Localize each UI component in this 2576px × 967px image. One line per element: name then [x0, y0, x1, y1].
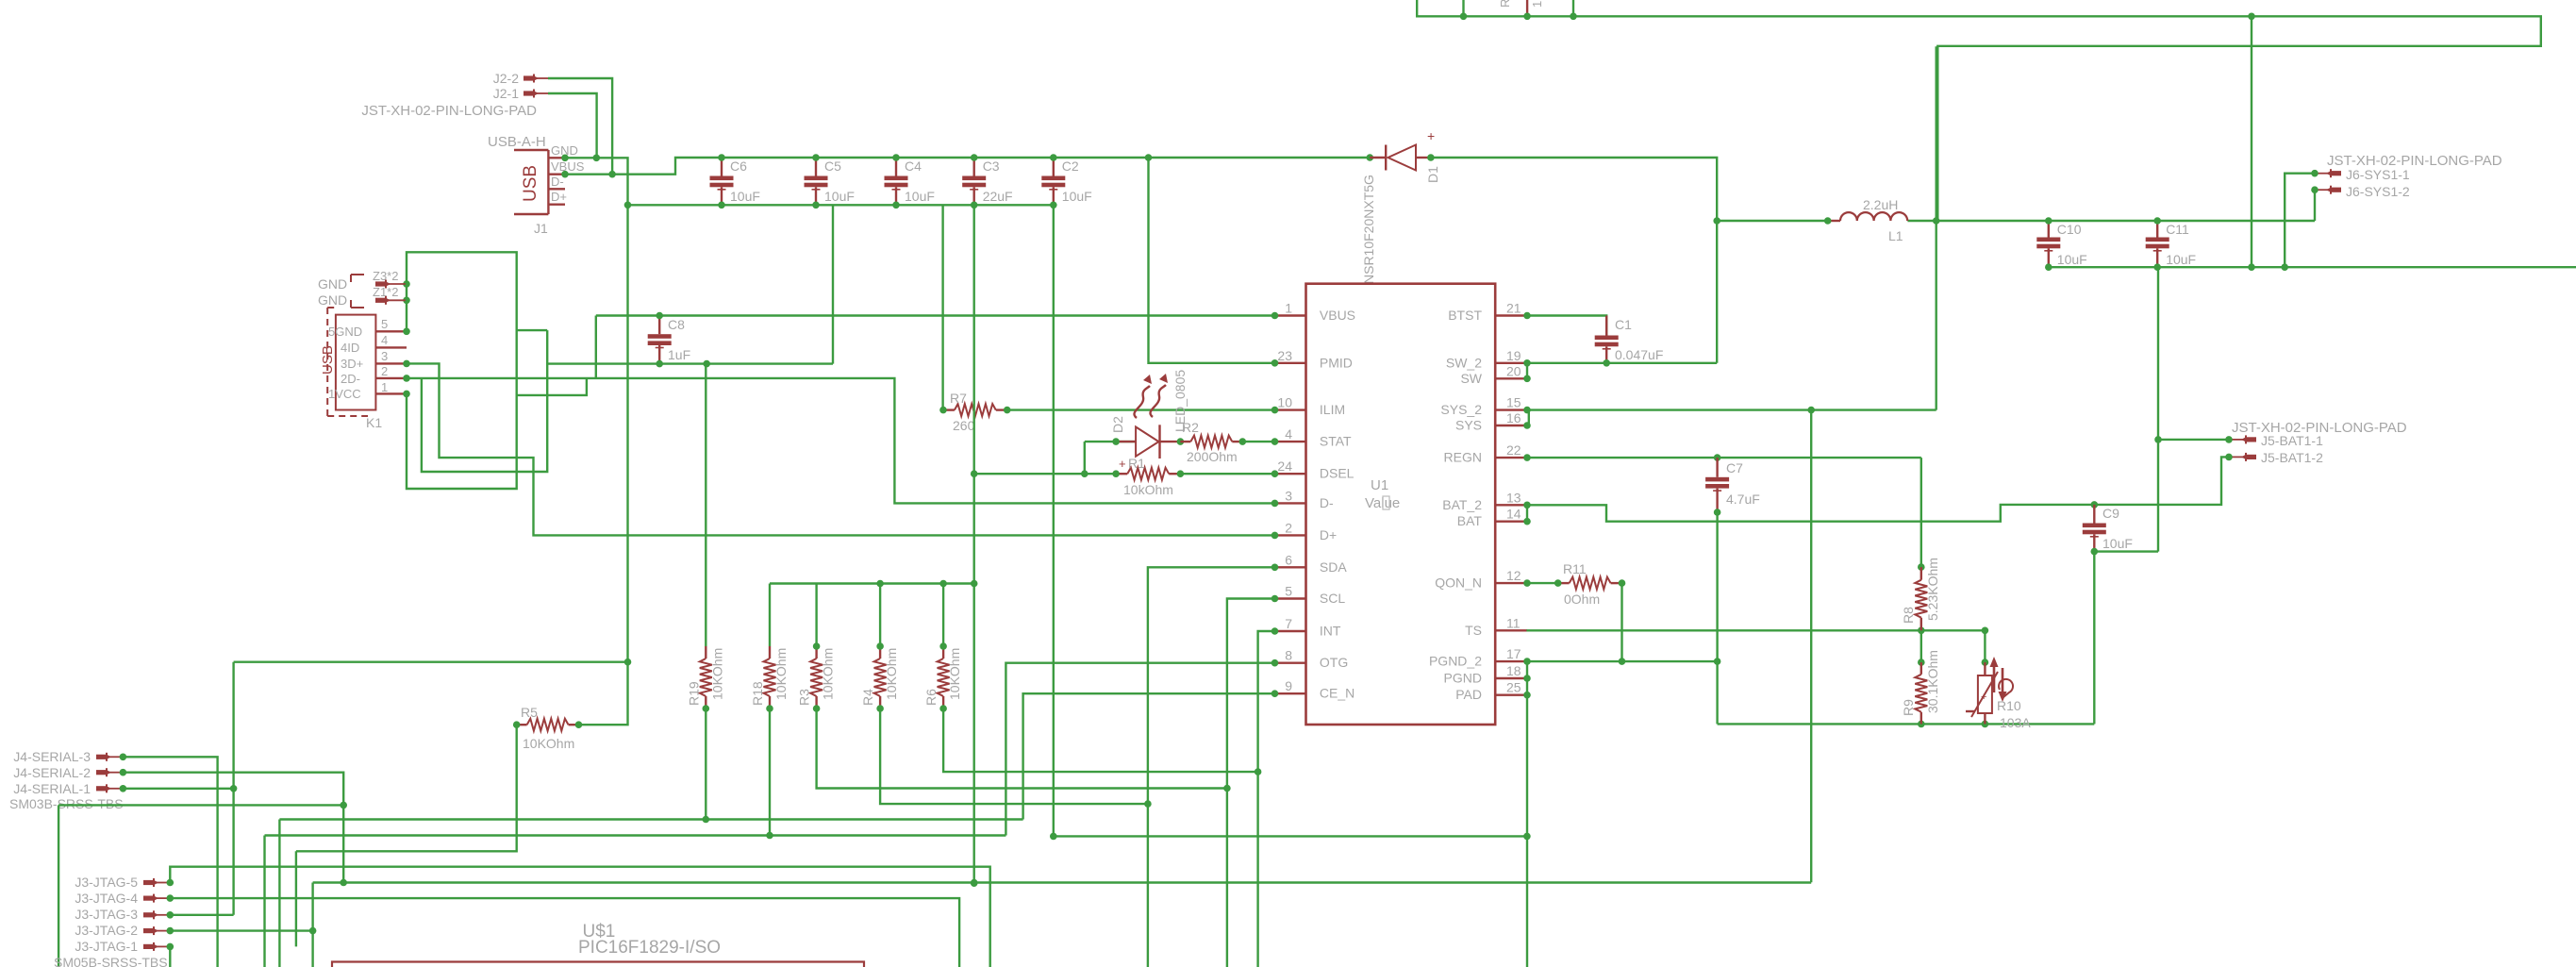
svg-text:OTG: OTG: [1320, 655, 1348, 670]
svg-text:10uF: 10uF: [824, 189, 855, 204]
svg-text:200Ohm: 200Ohm: [1187, 449, 1238, 464]
resistor R1 10kOhm: [1112, 456, 1184, 497]
wire JTAG-2 to SYS bus: [170, 929, 312, 931]
resistor R19 10KOhm: [686, 646, 724, 712]
svg-text:J4-SERIAL-3: J4-SERIAL-3: [13, 749, 91, 764]
svg-text:25: 25: [1506, 680, 1521, 695]
wire R3 top: [813, 584, 821, 650]
wire JTAG-3 to GND staircase: [170, 914, 233, 916]
svg-text:K1: K1: [366, 415, 382, 430]
svg-text:2D-: 2D-: [341, 372, 360, 386]
svg-text:R: R: [1498, 0, 1512, 8]
svg-text:PMID: PMID: [1320, 355, 1353, 370]
wire R6 top: [939, 584, 947, 650]
svg-text:5.23KOhm: 5.23KOhm: [1925, 558, 1940, 621]
junction JTAG-2: [309, 927, 317, 935]
labels cut-off R?: [1498, 0, 1544, 8]
svg-text:VBUS: VBUS: [1320, 308, 1355, 323]
wire JTAG-5 to PIC: [170, 867, 989, 967]
wire vertical from top frame to GND rail: [2251, 16, 2252, 267]
wire long GND vertical from C2 bottom: [1053, 205, 1055, 836]
svg-text:R19: R19: [686, 681, 701, 706]
junctions PGND line: [1619, 658, 1721, 665]
junctions J6 pins: [2311, 170, 2318, 193]
capacitor C10 10uF: [2036, 217, 2086, 271]
wire bus drop x296 to PIC: [278, 820, 280, 967]
labels J4-SERIAL: [9, 749, 124, 811]
svg-text:D1: D1: [1425, 166, 1440, 183]
svg-text:3D+: 3D+: [341, 357, 363, 371]
thermistor R10 103A: [1966, 657, 2031, 730]
U1 left pins with numbers: [1271, 301, 1355, 701]
svg-text:10uF: 10uF: [2166, 252, 2196, 267]
wire CE_N/SDA-pullup bus line: [279, 818, 1022, 820]
svg-text:PGND: PGND: [1444, 671, 1482, 686]
connector J1 USB-A-H symbol: [514, 150, 565, 214]
svg-text:4.7uF: 4.7uF: [1726, 492, 1760, 507]
wire SYS/pullup bus line: [313, 881, 1812, 883]
wire bus drop x280 to PIC: [263, 836, 265, 967]
wire GND net J1 to R5: [565, 158, 628, 725]
svg-text:10KOhm: 10KOhm: [523, 736, 574, 751]
junction SCL at R3: [1223, 785, 1231, 792]
wire R11 to PGND line: [1620, 583, 1622, 661]
wire SYS bus drop x331 to PIC: [311, 883, 313, 967]
junction DSEL at D2 drop: [1081, 470, 1089, 477]
junctions J3 pins: [167, 879, 175, 951]
junction SYS rail at feed: [1933, 217, 1940, 225]
svg-text:1VCC: 1VCC: [328, 387, 361, 401]
svg-text:C9: C9: [2102, 506, 2119, 521]
resistor R18 10KOhm: [750, 646, 789, 712]
svg-text:10uF: 10uF: [730, 189, 760, 204]
wire BTST to C1: [1527, 316, 1606, 336]
wire TS line: [1526, 629, 1985, 631]
wire GND mid line: [234, 661, 628, 663]
svg-text:12: 12: [1506, 568, 1521, 583]
capacitor C9 10uF: [2083, 505, 2133, 555]
svg-text:7: 7: [1285, 616, 1292, 631]
wire SW_2/SW tie and to D1 vertical: [1527, 363, 1717, 379]
svg-text:20: 20: [1506, 363, 1521, 378]
wire D- net K1 to U1: [407, 378, 1275, 504]
svg-text:0Ohm: 0Ohm: [1564, 592, 1600, 607]
svg-text:10KOhm: 10KOhm: [821, 648, 836, 700]
svg-text:J3-JTAG-4: J3-JTAG-4: [75, 891, 138, 906]
capacitor C3 22uF: [962, 154, 1012, 208]
wire SM03B drop to bottom: [58, 805, 59, 967]
svg-text:U1: U1: [1371, 477, 1388, 493]
wire REGN to R8 top: [1918, 458, 1925, 571]
svg-text:10KOhm: 10KOhm: [884, 648, 899, 700]
svg-text:4ID: 4ID: [341, 341, 359, 355]
labels J5-BAT1: [2232, 420, 2407, 465]
junctions J5 pins: [2225, 436, 2233, 460]
wire PMID feed from VBUS rail: [1149, 158, 1275, 363]
wire C7 bottom to GND line: [1716, 512, 1718, 724]
svg-text:BAT_2: BAT_2: [1442, 497, 1482, 512]
resistor R2 200Ohm: [1180, 420, 1246, 464]
svg-text:J2-2: J2-2: [493, 71, 519, 86]
junction SERIAL-2 at SM03B line: [340, 802, 347, 809]
svg-text:D2: D2: [1110, 416, 1125, 433]
svg-text:19: 19: [1506, 348, 1521, 363]
svg-text:CE_N: CE_N: [1320, 686, 1354, 701]
connector pins J5-BAT1: [2230, 435, 2256, 461]
svg-text:+: +: [1119, 457, 1126, 471]
wire VBUS drop to D- line: [595, 316, 597, 378]
junction C8-bottom R19 tap: [703, 360, 710, 368]
wire R4 bottom to SDA staircase: [880, 709, 1148, 804]
wire SDA staircase to PIC: [1148, 567, 1275, 967]
resistor R11 0Ohm: [1554, 561, 1625, 607]
wire K1 lower staircase: [422, 330, 547, 472]
connector pins J6-SYS1: [2316, 169, 2341, 194]
svg-text:1: 1: [1285, 301, 1292, 316]
svg-text:8: 8: [1285, 648, 1292, 663]
svg-text:SM03B-SRSS-TBS: SM03B-SRSS-TBS: [9, 796, 124, 811]
wire R6 bottom to INT staircase: [943, 709, 1258, 772]
resistor R4 10KOhm: [860, 646, 899, 712]
wire pullup rail to SYS vertical: [770, 582, 974, 584]
junctions SYS bus line: [340, 879, 977, 887]
svg-text:J5-BAT1-1: J5-BAT1-1: [2261, 433, 2323, 448]
svg-text:D+: D+: [1320, 527, 1337, 542]
wire C9 bottom vertical to GND line: [2093, 552, 2095, 725]
svg-text:R8: R8: [1901, 607, 1916, 624]
junctions TS line: [1918, 627, 1988, 635]
wire J6-SYS1-2 to SYS: [2314, 190, 2316, 221]
wire K1 GND stub east: [517, 329, 548, 331]
svg-text:R3: R3: [797, 689, 812, 706]
connector K1 micro-USB symbol: [320, 308, 407, 416]
svg-text:J5-BAT1-2: J5-BAT1-2: [2261, 450, 2323, 465]
resistor R7 260: [939, 391, 1010, 433]
svg-text:VBUS: VBUS: [551, 159, 585, 174]
svg-text:SYS_2: SYS_2: [1440, 402, 1482, 417]
wire ILIM line R7 to U1: [1007, 408, 1275, 410]
wire TS to R9 top: [1918, 630, 1925, 666]
junction SDA at R4: [1144, 800, 1152, 808]
wire MCLR staircase: [295, 851, 297, 946]
junctions GND rail right: [2248, 263, 2288, 271]
wire D2 anode: [1085, 441, 1136, 442]
svg-text:3: 3: [1285, 488, 1292, 503]
svg-text:+: +: [1981, 692, 1986, 703]
capacitor C11 10uF: [2146, 217, 2196, 271]
wire J4-SERIAL-3 to PIC: [123, 757, 217, 967]
resistor R9 30.1KOhm: [1901, 650, 1940, 724]
wire R3 bottom to SCL staircase: [817, 709, 1227, 789]
svg-text:C1: C1: [1615, 317, 1632, 332]
wire D+ net K1 to U1: [407, 363, 1275, 535]
svg-text:10KOhm: 10KOhm: [709, 648, 724, 700]
labels J1 pins: [488, 134, 585, 236]
capacitor C4 10uF: [885, 154, 935, 208]
svg-text:R1: R1: [1128, 456, 1145, 471]
wire SYS vertical to top frame: [1935, 46, 1936, 409]
svg-text:SW: SW: [1460, 371, 1482, 386]
svg-text:DSEL: DSEL: [1320, 466, 1354, 481]
wire CE_N staircase: [1023, 693, 1275, 819]
wire PGND line: [1527, 661, 1718, 695]
svg-text:J6-SYS1-1: J6-SYS1-1: [2346, 167, 2410, 182]
svg-text:15: 15: [1506, 395, 1521, 410]
wire QON_N to R11: [1527, 582, 1558, 584]
labels K1 pins: [328, 317, 388, 430]
junctions GND link: [1050, 833, 1531, 841]
wire K1 GND loop (Z pins to pin1): [407, 252, 517, 489]
labels J6-SYS1: [2327, 153, 2502, 199]
inductor L1 2.2uH: [1824, 197, 1907, 243]
svg-text:J3-JTAG-2: J3-JTAG-2: [75, 923, 138, 938]
junctions GND vertical: [624, 202, 632, 666]
svg-text:1: 1: [381, 380, 388, 394]
svg-text:NSR10F20NXT5G: NSR10F20NXT5G: [1361, 175, 1376, 284]
wire R19 top: [705, 364, 706, 646]
junction INT at R6: [1255, 768, 1262, 775]
svg-text:SM05B-SRSS-TBS: SM05B-SRSS-TBS: [54, 955, 168, 967]
svg-text:1uF: 1uF: [668, 347, 690, 362]
resistor R5 10KOhm: [513, 705, 582, 751]
resistor R3 10KOhm: [797, 646, 836, 712]
svg-text:SW_2: SW_2: [1446, 355, 1482, 370]
capacitor C8 1uF: [648, 312, 690, 368]
wire K1 VCC jog: [517, 378, 587, 395]
svg-text:Z3*2: Z3*2: [373, 269, 398, 283]
wire VBUS line to U1 pin1: [596, 314, 1275, 316]
svg-text:R5: R5: [521, 705, 538, 720]
svg-text:PAD: PAD: [1455, 687, 1482, 702]
junctions K1 pins: [403, 280, 410, 397]
svg-text:C5: C5: [824, 158, 841, 174]
transistor U$1 PIC16F1829-I/SO (cut off): [332, 922, 864, 967]
svg-text:C3: C3: [983, 158, 1000, 174]
wire JTAG-4 to PIC: [170, 898, 959, 967]
svg-text:R6: R6: [923, 689, 939, 706]
svg-text:10uF: 10uF: [2057, 252, 2087, 267]
svg-text:10uF: 10uF: [905, 189, 935, 204]
svg-text:5: 5: [381, 317, 388, 331]
svg-text:10kOhm: 10kOhm: [1123, 482, 1173, 497]
svg-text:R4: R4: [860, 689, 875, 706]
svg-text:R7: R7: [950, 391, 967, 406]
svg-text:SCL: SCL: [1320, 591, 1345, 606]
capacitor C7 4.7uF: [1705, 458, 1760, 516]
op-amp U1 box (charger IC): [1306, 284, 1496, 725]
svg-text:2: 2: [381, 364, 388, 378]
svg-text:30.1KOhm: 30.1KOhm: [1925, 650, 1940, 713]
svg-text:C7: C7: [1726, 460, 1743, 475]
svg-text:103A: 103A: [2000, 715, 2031, 730]
resistor R8 5.23KOhm: [1901, 558, 1940, 630]
svg-text:23: 23: [1277, 348, 1292, 363]
svg-text:C11: C11: [2166, 222, 2189, 237]
wire R7 feed from GND rail: [941, 205, 943, 409]
capacitor C6 10uF: [710, 154, 760, 208]
svg-text:R2: R2: [1182, 420, 1199, 435]
wire GND capacitor bottom rail: [628, 204, 1054, 206]
svg-text:R11: R11: [1563, 561, 1587, 576]
svg-text:260: 260: [953, 418, 975, 433]
junction GND vertical at J5-BAT1-1: [2154, 436, 2162, 443]
svg-text:4: 4: [1285, 426, 1292, 442]
wire J4-SERIAL-2 staircase: [123, 773, 343, 883]
svg-text:C10: C10: [2057, 222, 2082, 237]
connector pins J4-SERIAL: [96, 753, 123, 793]
junction bus line at R18: [766, 832, 773, 840]
svg-text:10KOhm: 10KOhm: [773, 648, 789, 700]
svg-text:STAT: STAT: [1320, 434, 1352, 449]
wire top cut-off frame net: [1417, 0, 2541, 220]
svg-text:11: 11: [1506, 615, 1521, 630]
junctions GND line bottoms: [1918, 721, 1988, 728]
svg-text:5GND: 5GND: [328, 325, 362, 339]
svg-text:C6: C6: [730, 158, 747, 174]
svg-text:JST-XH-02-PIN-LONG-PAD: JST-XH-02-PIN-LONG-PAD: [361, 103, 537, 119]
wire J2-2 to VBUS: [548, 78, 612, 175]
wire TS to R10 top: [1982, 630, 1989, 666]
suppressor pins Z3*2 Z1*2: [373, 269, 407, 305]
svg-text:INT: INT: [1320, 624, 1341, 639]
labels J3-JTAG: [54, 875, 168, 967]
svg-text:4: 4: [381, 333, 388, 347]
junctions top frame: [1460, 12, 2255, 20]
svg-text:10KOhm: 10KOhm: [947, 648, 962, 700]
svg-text:USB-A-H: USB-A-H: [488, 134, 546, 150]
wire BAT net to J5: [1527, 457, 2229, 521]
svg-text:L1: L1: [1888, 228, 1903, 243]
capacitor C2 10uF: [1041, 154, 1091, 208]
wire SM03B GND line: [58, 804, 343, 806]
wire C8 bottom to GND rail: [547, 205, 833, 363]
wire DSEL line: [974, 473, 1275, 475]
resistor R6 10KOhm: [923, 646, 962, 712]
wire R18 top: [769, 584, 771, 647]
svg-text:10uF: 10uF: [1062, 189, 1092, 204]
svg-text:J3-JTAG-1: J3-JTAG-1: [75, 939, 138, 954]
svg-text:PGND_2: PGND_2: [1429, 654, 1482, 669]
junctions on C3 vertical: [971, 470, 978, 887]
svg-text:22uF: 22uF: [983, 189, 1013, 204]
svg-text:21: 21: [1506, 301, 1521, 316]
svg-text:J3-JTAG-5: J3-JTAG-5: [75, 875, 138, 890]
wire R19 bottom to SDA/CE line: [705, 709, 706, 820]
svg-text:D-: D-: [1320, 495, 1334, 510]
svg-text:USB: USB: [521, 165, 540, 202]
svg-text:J4-SERIAL-2: J4-SERIAL-2: [13, 765, 91, 780]
wire J2-1 to GND: [548, 93, 597, 158]
wire INT staircase to PIC: [1258, 631, 1275, 967]
svg-text:17: 17: [1506, 646, 1521, 661]
svg-text:18: 18: [1506, 663, 1521, 678]
wire GND staircase x247: [232, 662, 234, 915]
svg-text:REGN: REGN: [1444, 450, 1482, 465]
svg-text:BTST: BTST: [1448, 308, 1482, 323]
svg-text:J2-1: J2-1: [493, 86, 519, 101]
wire GND rail bottom right: [2049, 266, 2576, 268]
wire OTG staircase: [1005, 663, 1274, 836]
wire J4-SERIAL-1 to GND staircase: [123, 788, 233, 790]
wire J5-BAT1-1: [2158, 439, 2229, 441]
svg-text:BAT: BAT: [1457, 513, 1483, 528]
junction SW at L1 line: [1713, 217, 1720, 225]
junctions VBUS rail right: [1145, 154, 1373, 161]
junctions on J1 GND/VBUS lines: [593, 155, 616, 178]
svg-text:GND: GND: [318, 276, 347, 292]
svg-text:USB: USB: [320, 345, 336, 375]
wire VBUS rail (J1 VBUS to D1 cathode): [565, 158, 1370, 175]
wire SYS drop to pullup line: [1810, 410, 1812, 883]
wire JTAG-1/MCLR drop to PIC: [169, 946, 171, 967]
svg-text:PIC16F1829-I/SO: PIC16F1829-I/SO: [578, 938, 721, 958]
svg-text:13: 13: [1506, 490, 1521, 505]
svg-text:2: 2: [1285, 520, 1292, 535]
svg-text:1: 1: [1530, 1, 1544, 8]
junctions J1 pins: [561, 155, 569, 178]
svg-text:GND: GND: [318, 292, 347, 308]
junction GND staircase at J4-SERIAL-1: [230, 785, 238, 792]
wire L1 leads: [1717, 220, 1936, 222]
connector pins J2-2 J2-1: [524, 75, 548, 98]
svg-text:5: 5: [1285, 584, 1292, 599]
svg-text:C2: C2: [1062, 158, 1079, 174]
wire SYS_2/SYS to east: [1529, 410, 1936, 425]
wire PAD vertical to bottom: [1526, 695, 1528, 967]
wire long vertical from C3 bottom (SYS strap): [972, 205, 974, 883]
wire R18 bottom to SCL/OTG line: [769, 709, 771, 836]
junction BAT at C9: [2091, 501, 2099, 509]
svg-text:+: +: [1427, 128, 1435, 143]
wire GND line below R9 R10: [1718, 723, 2095, 725]
svg-text:22: 22: [1506, 442, 1521, 458]
wire GND link to U1 PAD vertical: [1054, 835, 1527, 837]
svg-text:16: 16: [1506, 410, 1521, 425]
svg-text:R18: R18: [750, 681, 765, 706]
svg-text:3: 3: [381, 349, 388, 363]
junction SYS at pullup drop: [1807, 407, 1815, 414]
svg-text:9: 9: [1285, 678, 1292, 693]
wire J6-SYS1-1 to GND: [2285, 174, 2315, 268]
ground symbols at Z pins: [318, 275, 364, 308]
svg-text:14: 14: [1506, 507, 1521, 522]
junction bus line at R19: [703, 816, 710, 824]
svg-text:SYS: SYS: [1455, 418, 1482, 433]
svg-text:C8: C8: [668, 317, 685, 332]
wire R5 to MCLR bus line: [296, 725, 517, 851]
wire D2 anode to DSEL line: [1084, 442, 1086, 474]
wire C9 bottom to GND vertical: [2094, 550, 2158, 552]
svg-text:10uF: 10uF: [2102, 536, 2133, 551]
wire SCL staircase to PIC: [1227, 599, 1275, 967]
svg-text:QON_N: QON_N: [1435, 575, 1482, 591]
svg-text:J3-JTAG-3: J3-JTAG-3: [75, 907, 138, 922]
labels J2: [361, 71, 537, 119]
svg-text:J4-SERIAL-1: J4-SERIAL-1: [13, 781, 91, 796]
diode D1 NSR10F20NXT5G: [1361, 128, 1440, 284]
resistor R? lead (cut off at top): [1526, 0, 1528, 16]
LED D2 LED_0805: [1110, 370, 1188, 458]
svg-text:D-: D-: [551, 175, 564, 189]
svg-text:Z1*2: Z1*2: [373, 285, 398, 299]
svg-text:J1: J1: [534, 221, 548, 236]
svg-text:C4: C4: [905, 158, 922, 174]
wire SYS rail top: [1936, 220, 2315, 222]
wire SW net D1 to SW_2: [1431, 158, 1717, 363]
svg-text:6: 6: [1285, 552, 1292, 567]
svg-text:R9: R9: [1901, 699, 1916, 716]
svg-text:D+: D+: [551, 190, 567, 204]
